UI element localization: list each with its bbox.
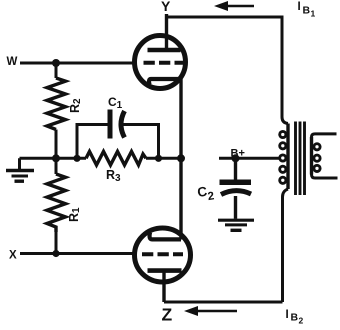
arrow current IB1 [214,1,254,11]
node W junction [52,59,60,67]
node R3 right junction [155,155,162,162]
wire X input line [20,252,133,255]
wire cathode bus [179,79,182,240]
node X junction [52,250,59,257]
tube V1 cathode [149,79,181,85]
wire left bus to R2 [55,63,58,78]
arrow current IB2 [184,306,237,316]
label Y [161,0,171,14]
resistor R3 [86,152,146,166]
wire mid node to ground [20,158,57,170]
label C2 [196,183,215,205]
wire bottom return [164,301,283,304]
resistor R2 [47,78,66,130]
transformer T1 secondary winding [312,134,338,178]
tube V1 plate [148,14,181,50]
svg-text:B: B [303,5,311,17]
svg-text:Z: Z [162,305,173,325]
svg-text:1: 1 [311,9,316,19]
wire plate V1 to top right corner [167,17,289,124]
tube V1 envelope (top) [135,36,186,89]
node mid junction [52,154,60,162]
tube V2 envelope (bottom) [135,228,191,282]
wire R3 to cathode bus [146,157,181,160]
tube V2 cathode [150,233,181,240]
capacitor C1 [108,110,125,139]
node B+ junction [232,154,240,162]
label IB1 [298,1,316,19]
wire mid node to R1 [55,158,58,174]
svg-text:X: X [9,250,17,262]
wire transformer primary bottom lead [283,189,289,302]
label C1 [108,95,123,111]
transformer T1 primary winding [280,124,288,190]
label R3 [106,168,121,184]
tube V2 grid [142,252,183,256]
transformer T1 core [296,122,305,196]
label W [7,56,18,68]
tube V1 grid [144,61,185,65]
wire cathode line left segment [56,157,86,160]
wire C2 to ground [234,196,237,219]
wire W input line [20,62,134,65]
ground (left) [6,171,34,182]
wire C1 branch left vertical [77,125,108,159]
wire R1 to X line [55,232,58,254]
label R2 [68,98,83,113]
wire C1 branch right vertical [123,125,159,159]
svg-text:Y: Y [161,0,171,14]
label Z [162,305,173,325]
svg-text:W: W [7,56,18,68]
wire B+ to C2 [234,158,237,179]
node C1 branch left junction [73,155,80,162]
capacitor C2 [220,180,252,195]
svg-text:I: I [286,309,289,321]
resistor R1 [47,174,66,232]
svg-text:B: B [291,312,299,324]
wire R2 to mid node [55,130,58,159]
label B+ [231,148,245,160]
node cathode bus junction [177,154,185,162]
wire B+ center tap [219,157,281,160]
label IB2 [286,309,304,326]
wire plate V2 lead [162,271,165,302]
label R1 [67,207,82,222]
svg-text:2: 2 [299,316,304,326]
tube V2 plate [148,268,182,273]
svg-text:I: I [298,1,301,13]
label X [9,250,17,262]
ground (C2) [218,220,254,230]
